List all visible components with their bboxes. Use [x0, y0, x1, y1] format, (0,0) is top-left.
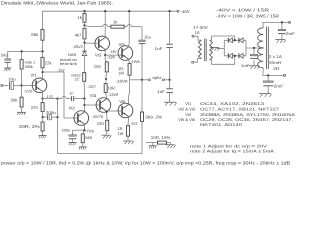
svg-text:25u: 25u — [144, 35, 151, 40]
wire bias to Vt4 base — [83, 99, 100, 107]
wire bootstrap left hop — [85, 24, 111, 26]
ground 10R right — [166, 143, 176, 148]
svg-text:50mH: 50mH — [269, 60, 281, 65]
label -6V75 — [92, 114, 103, 119]
label -1V3 — [46, 94, 53, 99]
table Vt5 Vt6 types cont — [200, 122, 243, 127]
ground 10R left — [149, 143, 157, 149]
svg-text:50u: 50u — [1, 52, 8, 57]
wire bias node — [8, 50, 43, 52]
svg-text:56k: 56k — [11, 98, 19, 103]
node 22k top — [41, 50, 43, 52]
resistor 22k — [41, 51, 52, 72]
node 330k top — [20, 50, 22, 52]
wire bridge DC out — [246, 47, 264, 49]
node 1n junction — [83, 97, 85, 99]
node Vt1 collector junction — [41, 71, 43, 73]
capacitor 200u Vt2 — [62, 129, 85, 143]
svg-text:330k: 330k — [25, 65, 33, 69]
svg-text:150: 150 — [97, 121, 105, 126]
diode 0A5 — [68, 43, 87, 73]
wire secondary bottom — [210, 56, 235, 65]
capacitor 25u bootstrap — [139, 27, 151, 80]
svg-text:Vt5 & Vt6: Vt5 & Vt6 — [178, 117, 196, 122]
transformer T1 primary — [198, 40, 201, 58]
ground 150 Vt4 — [102, 135, 112, 138]
wire choke bottom out — [263, 68, 284, 76]
ground 1mF — [249, 66, 260, 69]
wire bridge bottom edge — [224, 55, 246, 57]
wire choke top out — [263, 22, 289, 27]
node feedback line top — [56, 97, 58, 99]
resistor 1R 1W lower — [117, 126, 129, 141]
svg-text:note 2 Adjust for Iq = 15mA: note 2 Adjust for Iq = 15mA ± 5mA — [190, 149, 274, 154]
svg-text:-7V8: -7V8 — [85, 129, 94, 134]
transistor Vt3 — [95, 36, 110, 57]
svg-text:2mF: 2mF — [286, 31, 296, 36]
node Vt1 emitter — [41, 97, 43, 99]
wire to Vt3 base — [85, 42, 99, 44]
svg-text:spkr: spkr — [152, 75, 162, 80]
choke core — [267, 27, 269, 69]
capacitor 10u — [8, 77, 21, 90]
resistor 22 note2 — [71, 73, 86, 99]
resistor 4k7 — [75, 25, 86, 42]
terminal -26V psu — [284, 74, 286, 76]
svg-text:2 x 1A: 2 x 1A — [269, 54, 282, 59]
wire Vt5 base — [105, 49, 122, 55]
wire rail to Vt5 — [128, 11, 131, 47]
svg-text:-40V = 10W / 15R: -40V = 10W / 15R — [216, 8, 269, 13]
resistor 1k horizontal — [111, 20, 124, 29]
label 17-30V — [193, 25, 208, 30]
node 150-10R junction — [105, 77, 107, 82]
node rail junction x105 — [104, 10, 106, 12]
node 220-33R junction — [41, 116, 43, 118]
capacitor 50u — [1, 51, 11, 68]
resistor 330k note1 — [20, 51, 35, 85]
svg-text:1A: 1A — [195, 30, 200, 35]
node rail junction x169 — [168, 10, 170, 12]
wire mains bottom — [194, 59, 202, 63]
wire secondary top — [210, 36, 235, 40]
svg-text:1nF: 1nF — [157, 89, 166, 94]
capacitor 1nF upper — [155, 11, 173, 80]
wire Vt3 emitter — [104, 49, 106, 55]
wire Vt2 base drop — [64, 72, 78, 118]
label -13V7 — [87, 84, 96, 89]
wire Vt4 emitter — [106, 110, 108, 117]
svg-text:-13V9: -13V9 — [108, 92, 118, 97]
resistor 68k — [31, 11, 44, 51]
node Vt2 emitter junction — [83, 129, 85, 131]
label -18V9 — [116, 79, 128, 84]
svg-text:1W: 1W — [117, 131, 123, 136]
capacitor 2mF bottom — [263, 75, 284, 93]
wire Vt3 collector — [104, 11, 106, 37]
svg-text:power o/p = 10W / 15R, thd = 0: power o/p = 10W / 15R, thd = 0.2% @ 1kHz… — [1, 161, 290, 166]
svg-text:68k: 68k — [31, 32, 39, 37]
resistor 10R 10% — [146, 135, 171, 144]
svg-text:Vt1: Vt1 — [31, 73, 38, 78]
label -0V2 — [131, 121, 138, 126]
title — [1, 1, 113, 6]
wire Vt2 collector — [83, 105, 85, 112]
svg-text:Vt1: Vt1 — [185, 101, 192, 106]
terminal mains top — [192, 35, 194, 37]
wire output node — [130, 79, 142, 81]
svg-text:22k: 22k — [45, 61, 53, 66]
label -40V = 10W / 15R — [216, 8, 269, 13]
node output — [141, 79, 143, 81]
svg-text:heat-sink: heat-sink — [60, 61, 77, 66]
ground 200u Vt2 — [69, 143, 77, 146]
svg-text:-2V2: -2V2 — [58, 68, 65, 73]
wire mains top — [194, 36, 201, 40]
label -20V2 — [73, 44, 84, 49]
svg-text:-24V = 10W / 3R, 3W5 / 15R: -24V = 10W / 3R, 3W5 / 15R — [216, 14, 279, 19]
wire feedback bus — [58, 153, 143, 155]
svg-text:3k9, 2%: 3k9, 2% — [145, 114, 162, 119]
transformer T1 secondary — [210, 40, 213, 60]
svg-text:10u: 10u — [8, 77, 16, 82]
terminal input — [1, 85, 3, 87]
svg-text:2R: 2R — [273, 66, 280, 71]
diode D1 — [228, 38, 232, 43]
label -13V9 — [108, 92, 118, 97]
wire Vt5 bottom — [129, 59, 130, 64]
svg-text:200u: 200u — [62, 129, 70, 133]
svg-text:10R: 10R — [108, 85, 115, 90]
transistor Vt6 — [118, 99, 133, 118]
node zobel — [168, 79, 170, 81]
capacitor 2mF top — [278, 22, 295, 39]
resistor 33R — [19, 117, 44, 136]
resistor 1k upper — [77, 11, 86, 25]
resistor 150 Vt3 — [94, 55, 109, 77]
svg-text:-1V3: -1V3 — [46, 94, 53, 99]
svg-text:-19V: -19V — [110, 49, 117, 54]
label -26V = 10W / 3R — [216, 14, 279, 19]
table Vt4 types — [185, 112, 295, 117]
svg-text:NKT401, AD140: NKT401, AD140 — [200, 122, 243, 127]
capacitor 1n — [69, 91, 84, 101]
node bridge AC bottom — [234, 55, 236, 57]
label spkr — [152, 75, 162, 80]
svg-text:10R, 10%: 10R, 10% — [151, 135, 171, 140]
svg-text:-1V5: -1V5 — [23, 88, 32, 93]
svg-text:560: 560 — [85, 135, 92, 140]
node Vt1 base — [20, 84, 22, 86]
ground 560 — [79, 147, 87, 150]
wire Vt1 emitter — [42, 91, 44, 98]
resistor 56k — [11, 86, 24, 113]
node 1k-4k7 junction — [83, 24, 85, 26]
wire bridge right edge — [245, 40, 247, 56]
transistor Vt2 — [69, 106, 89, 126]
terminal spkr left — [148, 79, 150, 81]
svg-text:-20V2: -20V2 — [73, 44, 84, 49]
resistor 3k9 — [141, 80, 163, 154]
ground 33R — [39, 136, 47, 139]
wire bootstrap hop — [124, 25, 142, 27]
wire bridge top edge — [224, 39, 246, 41]
svg-text:1n: 1n — [69, 91, 73, 95]
ground 56k — [17, 112, 26, 115]
wire output to Vt6 — [129, 80, 130, 105]
resistor 150 Vt4 — [97, 117, 109, 135]
svg-text:-0V2: -0V2 — [131, 121, 138, 126]
wire hop over Vt2 base line — [58, 96, 71, 98]
svg-text:1W: 1W — [118, 71, 124, 76]
svg-text:-6V75: -6V75 — [92, 114, 103, 119]
resistor 220 — [31, 99, 44, 118]
label mount on heat-sink — [60, 57, 77, 66]
ground 50u — [4, 68, 11, 71]
svg-text:220: 220 — [31, 105, 39, 110]
label -1V5 — [23, 88, 32, 93]
wire input — [3, 85, 9, 87]
node 2mF bottom tap — [267, 74, 269, 76]
wire Vt6 bottom — [127, 117, 130, 126]
transformer core — [205, 39, 207, 62]
table Vt2 Vt3 types — [178, 107, 280, 112]
svg-text:Vt2: Vt2 — [69, 106, 76, 111]
label -19V — [107, 54, 115, 59]
svg-text:-40V: -40V — [181, 9, 190, 14]
ground 1R lower — [123, 141, 134, 144]
label choke — [269, 54, 282, 71]
wire Vt6 base — [107, 110, 121, 112]
node bridge AC top — [234, 39, 236, 41]
node rail junction x129 — [128, 10, 130, 12]
svg-text:note 1: note 1 — [25, 60, 36, 64]
svg-text:-18V9: -18V9 — [116, 79, 128, 84]
note 2 text — [190, 149, 274, 154]
capacitor 1nF lower — [157, 80, 173, 102]
ground 2mF top — [275, 40, 286, 43]
terminal mains bottom — [192, 61, 194, 63]
ground bridge — [210, 47, 220, 50]
node 2mF top tap — [281, 21, 283, 23]
capacitor 1mF — [241, 48, 258, 68]
terminal spkr right — [162, 79, 164, 81]
label -2V2 — [58, 68, 65, 73]
svg-text:Vt4: Vt4 — [90, 93, 97, 98]
svg-text:Vt3: Vt3 — [95, 52, 102, 57]
label -7V8 — [85, 129, 94, 134]
transistor Vt1 — [31, 73, 47, 93]
wire spkr to zobel — [164, 79, 169, 81]
wire bridge left edge — [223, 40, 225, 56]
wire Vt2 emitter — [83, 124, 85, 130]
resistor 10R — [104, 82, 115, 99]
svg-text:Dinsdale MkII, (Wireless Worl: Dinsdale MkII, (Wireless World, Jan-Feb … — [1, 1, 113, 6]
svg-text:33R, 2%: 33R, 2% — [19, 124, 40, 129]
wire -40V supply rail — [43, 10, 178, 12]
svg-text:-13V7: -13V7 — [87, 84, 96, 89]
wire to spkr terminal — [142, 79, 148, 81]
node rail junction x84 — [83, 10, 85, 12]
wire emitter node — [43, 98, 58, 100]
wire base to Vt1 — [22, 85, 36, 87]
wire Vt1 collector — [42, 72, 44, 79]
diode D3 — [228, 53, 232, 58]
footer specs — [1, 161, 290, 166]
node Vt3 emitter junction — [104, 54, 106, 56]
svg-text:22: 22 — [75, 78, 79, 82]
table Vt1 types — [185, 101, 265, 106]
resistor 560 — [81, 130, 93, 147]
diode D2 — [239, 38, 243, 43]
label 1A — [195, 30, 200, 35]
wire collector to Vt2 base line — [43, 71, 64, 73]
terminal -40V — [177, 9, 190, 14]
node feedback line 200u — [56, 116, 58, 118]
label -19V8 — [131, 59, 140, 64]
capacitor 200u emitter — [43, 110, 58, 120]
wire bridge ground tap — [218, 47, 225, 48]
node Vt3 base junction — [83, 41, 85, 43]
diode D4 — [239, 53, 243, 58]
svg-text:4k7: 4k7 — [75, 32, 82, 37]
wire feedback line — [57, 99, 59, 154]
svg-text:OC44, XA102, 2N2613: OC44, XA102, 2N2613 — [200, 101, 265, 106]
table Vt5 Vt6 types — [178, 117, 293, 122]
transistor Vt4 — [90, 93, 111, 112]
svg-text:2mF: 2mF — [274, 84, 284, 89]
transistor Vt5 — [118, 42, 133, 61]
choke L1 winding — [258, 28, 264, 68]
node 1mF tap — [253, 47, 255, 49]
ground 2mF bottom — [259, 94, 272, 97]
svg-text:1nF: 1nF — [155, 46, 164, 51]
svg-text:150: 150 — [94, 64, 102, 69]
resistor 1R 1W upper — [118, 64, 131, 80]
svg-text:-19V8: -19V8 — [131, 59, 140, 64]
ground 1nF lower — [164, 102, 177, 105]
terminal -40V psu — [289, 21, 291, 23]
svg-text:1mF: 1mF — [241, 63, 251, 68]
note 1 text — [190, 143, 267, 148]
